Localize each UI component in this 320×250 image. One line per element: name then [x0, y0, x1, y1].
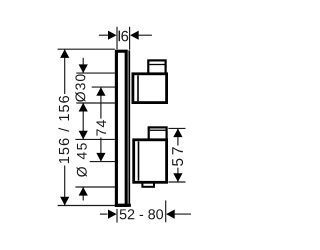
- label diameter 45: [77, 143, 87, 177]
- dimension 57: top extension line: [168, 127, 185, 129]
- label 156 / 156: [58, 96, 69, 163]
- dimension diam30: upper lead line: [82, 58, 84, 73]
- dimension diam30/45: shared lead line: [82, 103, 84, 139]
- dimension 57: line lower segment: [177, 168, 179, 182]
- dimension 16: right tail: [139, 34, 152, 36]
- node lower-handle step: [149, 127, 167, 139]
- node lower-handle body (diam 45): [134, 140, 167, 183]
- dimension 52-80: left extension line: [116, 209, 118, 223]
- dimension 52-80: right extension line: [165, 200, 167, 222]
- dimension diam45: lower lead line: [82, 187, 84, 200]
- dimension diam45: bottom arrow: [79, 187, 88, 196]
- label 52 - 80: [120, 209, 163, 219]
- dimension 156: line lower segment: [64, 166, 66, 206]
- dimension 74: top axis tick: [92, 86, 115, 88]
- dimension 74: bottom axis tick: [90, 161, 115, 163]
- dimension 16: right extension line: [129, 27, 131, 50]
- wire (step inner line): [150, 129, 166, 131]
- dimension 52-80: left arrow: [108, 210, 117, 219]
- wire (plate bottom end cap): [115, 204, 131, 207]
- dimension diam45: bottom extension line: [75, 186, 115, 188]
- dimension 156: top extension line: [58, 48, 115, 50]
- label 16: digit 6: [121, 31, 128, 42]
- wire (plate rear contour line): [128, 50, 130, 205]
- dimension diam30: bottom extension line: [76, 102, 115, 104]
- wire (cap inner line): [149, 64, 164, 66]
- dimension 156: top arrow: [60, 49, 69, 58]
- dimension 57: bottom arrow: [173, 173, 182, 182]
- wall plate (escutcheon side section): [116, 51, 126, 205]
- dimension 52-80: right tail: [174, 213, 191, 215]
- dimension 74: line upper segment: [100, 87, 102, 118]
- node upper-handle body (diam 30): [133, 74, 167, 103]
- dimension diam45: top extension line: [75, 138, 115, 140]
- dimension 16: left tail: [99, 34, 108, 36]
- wire (upper handle rim line): [137, 75, 139, 101]
- dimension 57: bottom extension line: [168, 181, 185, 183]
- dimension diam45: top arrow: [79, 131, 88, 140]
- dimension 52-80: right arrow: [166, 210, 175, 219]
- dimension diam30: top extension line: [76, 72, 115, 74]
- label diameter 30: [75, 74, 85, 101]
- node lower-handle tab: [142, 180, 154, 187]
- wire (lower handle rim line): [138, 141, 140, 180]
- dimension 16: right arrow: [130, 31, 139, 40]
- dimension 74: top arrow: [96, 87, 105, 96]
- label 57: [172, 147, 183, 166]
- dimension diam30: top arrow: [79, 64, 88, 73]
- dimension 74: line lower segment: [100, 138, 102, 162]
- dimension 16: left arrow: [108, 31, 117, 40]
- dimension 156: line upper segment: [64, 49, 66, 94]
- dimension 52-80: left tail: [100, 213, 108, 215]
- label 16: digit 1 stem: [118, 31, 120, 42]
- dimension 74: bottom arrow: [96, 153, 105, 162]
- dimension 156: bottom extension line: [58, 205, 115, 207]
- node upper-handle cap: [148, 60, 165, 73]
- dimension 16: left extension line: [116, 27, 118, 49]
- dimension diam30: bottom arrow: [79, 103, 88, 112]
- dimension 57: line upper segment: [177, 129, 179, 146]
- dimension 156: bottom arrow: [60, 197, 69, 206]
- dimension 57: top arrow: [173, 129, 182, 138]
- label 74: [96, 120, 106, 135]
